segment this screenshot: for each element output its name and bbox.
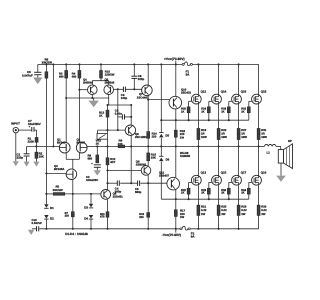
resistor R2 xyxy=(35,145,45,158)
resistor R28 xyxy=(221,107,230,113)
resistor R30 xyxy=(221,188,230,194)
svg-text:Q16: Q16 xyxy=(241,89,247,93)
svg-text:Q19: Q19 xyxy=(261,170,267,174)
svg-text:2N5546: 2N5546 xyxy=(105,80,115,84)
capacitor C5 xyxy=(135,181,142,195)
transistor Q14 xyxy=(212,89,227,104)
wire upper gate bus xyxy=(161,119,249,121)
resistor R13 xyxy=(99,105,109,117)
resistor R33 xyxy=(257,205,267,216)
svg-text:D1: D1 xyxy=(50,206,54,210)
wire Q13 source xyxy=(197,185,199,205)
wire R21 to rail xyxy=(197,215,199,229)
svg-text:Q18: Q18 xyxy=(261,89,267,93)
wire Q5 collector xyxy=(108,95,110,99)
resistor R3 xyxy=(59,64,68,78)
wire R20 to bus xyxy=(188,113,190,121)
svg-text:1W: 1W xyxy=(221,212,226,216)
wire R27 to out xyxy=(238,140,240,148)
wire Q4 collector xyxy=(91,95,93,99)
wire Q8 emitter xyxy=(130,135,132,146)
wire Q8 leg down xyxy=(130,146,132,183)
svg-text:33K: 33K xyxy=(151,156,156,160)
wire R1 to input node xyxy=(36,142,38,146)
svg-text:2SB546: 2SB546 xyxy=(136,162,147,166)
capacitor C1 xyxy=(17,152,30,159)
wire C2 stub xyxy=(118,116,132,118)
transistor Q12 xyxy=(191,89,206,104)
ground bottom left xyxy=(28,230,34,235)
svg-text:BF245A: BF245A xyxy=(54,167,64,171)
wire Q15 source xyxy=(218,185,220,205)
svg-text:470: 470 xyxy=(100,216,105,219)
resistor R6 xyxy=(42,57,53,78)
resistor R10 xyxy=(100,64,115,78)
resistor R18 xyxy=(174,129,185,140)
wire L1 to speaker xyxy=(276,146,281,149)
wire Q17 source xyxy=(238,185,240,205)
transistor Q8 xyxy=(125,125,147,139)
wire Q19 source xyxy=(258,185,260,205)
wire cap line xyxy=(108,182,167,184)
resistor R8 xyxy=(88,154,99,163)
wire lower gate bus xyxy=(161,198,249,200)
svg-text:0.047uF: 0.047uF xyxy=(22,73,33,77)
resistor R19 xyxy=(197,128,207,140)
svg-text:0.01u: 0.01u xyxy=(115,112,122,116)
svg-text:D1-D4 : 1N4148: D1-D4 : 1N4148 xyxy=(65,232,88,236)
diode D6 xyxy=(159,156,170,161)
wire R15 to Q9 xyxy=(147,161,149,166)
svg-text:10W: 10W xyxy=(221,135,227,139)
svg-text:-Vcc(70-80V): -Vcc(70-80V) xyxy=(162,233,181,237)
wire R33 to rail xyxy=(258,215,260,228)
resistor R32 xyxy=(241,107,250,113)
resistor R9 xyxy=(118,138,125,147)
capacitor C6 xyxy=(22,70,41,78)
wire Q1 drain xyxy=(65,78,67,143)
transistor Q15 xyxy=(212,170,227,185)
wire bus to R17 xyxy=(175,199,177,210)
ground input jack xyxy=(13,133,19,166)
svg-text:1K: 1K xyxy=(201,192,204,195)
ground below C3 xyxy=(94,167,101,175)
capacitor C8 xyxy=(131,74,144,81)
wire Q11 emitter xyxy=(175,190,177,199)
wire Q17 gate xyxy=(229,182,232,188)
svg-text:1K: 1K xyxy=(181,110,184,113)
capacitor C4 xyxy=(115,181,122,194)
wire Q14 source xyxy=(218,104,220,129)
svg-text:1K: 1K xyxy=(181,192,184,195)
ground below C6 xyxy=(33,75,42,84)
resistor R20 xyxy=(181,107,190,113)
diode D4 xyxy=(84,215,93,220)
svg-text:1K: 1K xyxy=(241,192,244,195)
wire R32 to bus xyxy=(248,113,250,121)
wire R12 down xyxy=(106,145,108,189)
resistor R1 xyxy=(35,138,38,143)
wire D6 down xyxy=(160,162,162,200)
resistor R34 xyxy=(241,188,250,194)
wire bias rail to input node xyxy=(52,63,54,146)
wire Q14 gate xyxy=(209,101,212,107)
wire R8 leg xyxy=(96,146,98,155)
wire Q16 gate xyxy=(229,101,232,107)
wire Q11 base xyxy=(166,182,168,184)
wire Q3 source xyxy=(72,179,74,211)
svg-text:1K: 1K xyxy=(201,110,204,113)
wire Q12 drain xyxy=(197,64,199,94)
diode D3 xyxy=(84,204,93,210)
wire Q16 drain xyxy=(238,64,240,94)
wire R23 to out xyxy=(218,140,220,148)
label R1 xyxy=(28,137,35,144)
svg-text:Q17: Q17 xyxy=(241,170,247,174)
transistor Q1 xyxy=(57,138,70,153)
wire Q8 base line xyxy=(98,129,126,131)
transistor Q9 xyxy=(136,159,151,175)
wire Q13 gate xyxy=(189,182,192,188)
svg-text:1K: 1K xyxy=(241,110,244,113)
wire output rail xyxy=(130,145,258,147)
svg-text:1W: 1W xyxy=(180,215,185,219)
svg-text:1N4005: 1N4005 xyxy=(180,154,191,158)
wire R30 to bus xyxy=(228,194,230,199)
transistor Q10 xyxy=(169,87,192,108)
svg-text:220: 220 xyxy=(152,134,157,138)
svg-text:10W: 10W xyxy=(241,135,247,139)
svg-text:680: 680 xyxy=(72,76,77,79)
wire D5 to out xyxy=(160,138,162,157)
svg-text:2SD401: 2SD401 xyxy=(113,194,124,198)
svg-text:2SC4467: 2SC4467 xyxy=(137,96,149,100)
svg-text:2SD401: 2SD401 xyxy=(181,90,192,94)
svg-text:1W: 1W xyxy=(261,212,266,216)
svg-text:D2: D2 xyxy=(50,216,54,220)
svg-text:1W: 1W xyxy=(180,136,185,140)
wire R24 to bus xyxy=(208,113,210,121)
wire Q3 gate xyxy=(46,172,66,174)
transistor Q13 xyxy=(191,170,206,185)
svg-text:1K: 1K xyxy=(99,113,103,117)
transistor Q7 xyxy=(137,85,152,100)
svg-text:10W: 10W xyxy=(261,135,267,139)
capacitor C2 xyxy=(115,109,125,120)
wire x117 branch xyxy=(117,89,119,130)
resistor R14 xyxy=(147,131,157,138)
wire Q7 emitter xyxy=(147,95,149,131)
svg-text:Q14: Q14 xyxy=(221,89,227,93)
resistor R23 xyxy=(217,128,227,140)
svg-text:1K: 1K xyxy=(221,192,224,195)
resistor R31 xyxy=(257,128,267,140)
wire Q19 gate xyxy=(249,182,252,188)
wire R26 to bus xyxy=(208,194,210,199)
resistor R11 xyxy=(100,212,109,219)
wire Q5 to C9 xyxy=(114,88,124,90)
wire C1 leg xyxy=(26,146,28,153)
wire Q2 drain xyxy=(78,78,80,143)
wire sources join xyxy=(66,153,79,169)
svg-text:D3: D3 xyxy=(84,205,88,209)
resistor R26 xyxy=(201,188,210,194)
resistor R24 xyxy=(201,107,210,113)
transistor Q4 xyxy=(83,77,97,94)
wire D4 to rail xyxy=(90,220,92,229)
svg-text:220/1W: 220/1W xyxy=(105,73,115,77)
wire -Vcc bottom rail xyxy=(32,228,259,230)
wire C6 leg xyxy=(37,64,39,72)
resistor R27 xyxy=(237,128,247,140)
svg-text:BF245: BF245 xyxy=(57,141,66,145)
svg-text:220p: 220p xyxy=(17,156,24,160)
svg-text:1W: 1W xyxy=(201,212,206,216)
diode D5 xyxy=(159,133,169,138)
transistor Q16 xyxy=(232,89,247,104)
wire Q18 drain xyxy=(258,64,260,94)
resistor R25 xyxy=(217,205,227,216)
wire Q9 emitter xyxy=(139,175,149,229)
wire Q18 gate xyxy=(249,101,252,107)
wire Q17 drain xyxy=(238,146,240,175)
svg-text:SP: SP xyxy=(288,139,292,143)
wire Q15 drain xyxy=(218,146,220,175)
wire input to C7 xyxy=(19,129,32,131)
capacitor C9 xyxy=(121,87,128,101)
trimmer VR1 xyxy=(96,130,108,145)
ground mid xyxy=(89,98,99,107)
wire Q16 source xyxy=(238,104,240,129)
svg-text:220: 220 xyxy=(139,216,144,219)
svg-text:L1: L1 xyxy=(267,151,271,155)
transistor Q2 xyxy=(76,138,87,153)
svg-text:33K/1W: 33K/1W xyxy=(53,188,63,192)
wire Q9 base xyxy=(108,169,142,171)
connector INPUT xyxy=(11,122,20,133)
svg-text:560p: 560p xyxy=(135,190,142,194)
wire +Vcc top rail xyxy=(38,63,259,65)
label D1-D4 xyxy=(65,232,88,236)
wire R28 to bus xyxy=(228,113,230,121)
wire out to Q11 xyxy=(175,146,177,177)
svg-text:D4: D4 xyxy=(84,216,88,220)
resistor R7 xyxy=(65,212,75,218)
svg-text:220: 220 xyxy=(118,142,123,146)
capacitor C7 xyxy=(28,119,41,132)
wire Q12 gate xyxy=(189,101,192,107)
wire R13 to VR1 xyxy=(106,117,108,134)
inductor L1 xyxy=(265,144,276,154)
svg-text:4K7: 4K7 xyxy=(110,160,116,164)
wire R34 to bus xyxy=(248,194,250,199)
svg-text:Q15: Q15 xyxy=(221,170,227,174)
diode D1 xyxy=(44,204,54,210)
wire y98 node xyxy=(65,97,109,105)
wire R22 to bus xyxy=(188,194,190,199)
wire Q10 emitter xyxy=(175,109,177,120)
svg-text:33K/1W: 33K/1W xyxy=(42,61,53,65)
wire input node xyxy=(27,145,60,147)
capacitor C3 xyxy=(86,162,101,182)
wire Q14 drain xyxy=(218,64,220,94)
svg-text:Q12: Q12 xyxy=(201,89,207,93)
wire R5 leads xyxy=(45,193,101,195)
ground below C1 xyxy=(24,157,30,167)
diode D2 xyxy=(44,215,54,220)
wire Q18 source xyxy=(258,104,260,129)
ground below R2 xyxy=(33,158,39,166)
transistor Q5 xyxy=(104,77,115,94)
resistor R21 xyxy=(197,205,207,216)
svg-text:2N5546: 2N5546 xyxy=(83,80,93,84)
wire D5 leg top xyxy=(160,64,162,132)
resistor R17 xyxy=(174,208,185,219)
wire C7 to R1 xyxy=(34,130,37,137)
svg-text:2SC1061: 2SC1061 xyxy=(135,135,147,139)
transistor Q11 xyxy=(159,170,180,190)
wire R18 to out xyxy=(175,137,177,147)
wire Q7 collector xyxy=(147,64,149,85)
svg-text:1K: 1K xyxy=(221,110,224,113)
wire Q12 source xyxy=(197,104,199,129)
svg-text:1W: 1W xyxy=(241,212,246,216)
svg-text:100u/25V: 100u/25V xyxy=(86,178,98,182)
wire Q10 collector xyxy=(175,64,177,96)
svg-text:Q13: Q13 xyxy=(201,170,207,174)
svg-text:0.047uF: 0.047uF xyxy=(32,221,43,225)
svg-text:560p: 560p xyxy=(115,189,122,193)
wire D3 leg xyxy=(90,194,92,204)
svg-text:D6: D6 xyxy=(166,157,170,161)
speaker SP xyxy=(278,139,292,169)
svg-text:680: 680 xyxy=(59,76,64,79)
label D5-D8 xyxy=(180,151,191,158)
wire Q4 base xyxy=(78,89,87,91)
wire feedback line xyxy=(97,145,131,147)
transistor Q6 xyxy=(101,190,123,200)
wire Q15 gate xyxy=(209,182,212,188)
resistor R5 xyxy=(53,185,65,196)
svg-text:+Vcc(70-80V): +Vcc(70-80V) xyxy=(164,57,185,61)
transistor Q17 xyxy=(232,170,247,185)
node +Vcc label xyxy=(164,57,185,64)
resistor R22 xyxy=(181,188,190,194)
resistor R15 xyxy=(147,153,157,161)
resistor R12 xyxy=(106,139,116,165)
wire R11 to rail xyxy=(107,217,109,229)
wire bus to R18 xyxy=(175,120,177,130)
wire D2 to rail xyxy=(45,220,47,229)
wire Q8 collector xyxy=(130,105,132,125)
capacitor C10 xyxy=(32,218,43,232)
fuse F2 xyxy=(180,226,195,238)
svg-text:D5: D5 xyxy=(165,134,169,138)
wire Q13 drain xyxy=(197,146,199,175)
wire R19 to out xyxy=(197,140,199,148)
svg-text:2SB407: 2SB407 xyxy=(159,173,170,177)
wire C8 down xyxy=(133,78,135,89)
wire VAS line A xyxy=(106,104,132,106)
svg-text:220K: 220K xyxy=(28,140,35,144)
svg-text:INPUT: INPUT xyxy=(11,122,20,126)
wire Q19 drain xyxy=(258,146,260,175)
svg-text:220: 220 xyxy=(65,215,70,218)
wire R29 to rail xyxy=(238,215,240,229)
wire Q4 Q5 emitters xyxy=(92,78,108,85)
svg-text:1K: 1K xyxy=(96,142,100,146)
transistor Q18 xyxy=(252,89,267,104)
wire C8 leg xyxy=(133,64,135,76)
wire VAS line B xyxy=(147,99,169,101)
wire R7 to rail xyxy=(72,217,74,229)
fuse F1 xyxy=(182,62,192,77)
wire R14 to out xyxy=(147,138,149,153)
wire Q2 gate line xyxy=(87,145,98,147)
wire R6 to D1 xyxy=(45,78,47,204)
wire R31 to out xyxy=(258,140,260,147)
ground below speaker xyxy=(276,163,286,182)
wire C9 to Q7 base xyxy=(125,88,141,90)
resistor R4 xyxy=(72,64,81,78)
svg-text:10W: 10W xyxy=(201,135,207,139)
svg-text:10K: 10K xyxy=(39,155,45,159)
transistor Q3 xyxy=(54,164,77,179)
resistor R29 xyxy=(237,205,247,216)
svg-text:220p: 220p xyxy=(138,77,145,81)
svg-text:100p: 100p xyxy=(121,96,128,100)
wire Q6 emitter xyxy=(107,199,109,212)
transistor Q19 xyxy=(252,170,267,185)
wire R25 to rail xyxy=(218,215,220,229)
node -Vcc label xyxy=(162,229,181,237)
svg-text:680: 680 xyxy=(88,157,93,161)
wire R17 to rail xyxy=(175,216,177,228)
svg-text:BF245: BF245 xyxy=(77,141,86,145)
wire out to L1 xyxy=(258,145,265,147)
